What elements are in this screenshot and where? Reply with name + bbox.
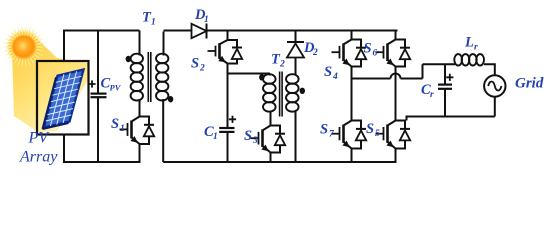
svg-text:PV: PV — [110, 83, 122, 93]
wire: top rail to S4 — [351, 31, 353, 40]
wire: node to T2 primary top — [228, 73, 271, 75]
wire: S1 emitter to bottom rail — [139, 144, 141, 163]
svg-text:S: S — [244, 128, 252, 144]
svg-text:S: S — [366, 121, 374, 137]
transformer T2 secondary winding — [286, 58, 299, 163]
T2 secondary dot — [300, 88, 305, 94]
wire: left top rail — [63, 30, 140, 32]
wire: S3 emitter to bottom rail — [270, 153, 272, 164]
svg-text:3: 3 — [252, 136, 258, 146]
transformer T2 core — [279, 72, 281, 117]
wire: top rail to S2 collector — [227, 31, 229, 41]
T2 primary dot — [259, 74, 264, 80]
diode D2 — [295, 31, 297, 43]
svg-text:S: S — [364, 41, 372, 57]
T1 primary dot — [126, 56, 131, 62]
AC grid source — [484, 75, 505, 96]
wire: right-leg midpoint to bottom output — [407, 117, 495, 121]
svg-text:S: S — [320, 122, 328, 138]
svg-text:S: S — [324, 64, 332, 80]
svg-text:S: S — [111, 116, 119, 132]
PV array box — [37, 61, 89, 135]
transformer T2 primary winding — [263, 74, 276, 126]
svg-text:S: S — [191, 56, 199, 72]
PV solar panel — [43, 70, 84, 130]
wire: secondary bottom rail — [163, 161, 396, 163]
wire: S2 emitter down to node — [227, 64, 229, 74]
transistor S6 (IGBT with antiparallel diode) — [376, 40, 411, 67]
svg-text:2: 2 — [312, 48, 318, 58]
transistor S7 (IGBT with antiparallel diode) — [332, 121, 367, 149]
transistor S4 (IGBT with antiparallel diode) — [332, 40, 367, 67]
sunlight beam — [12, 36, 88, 132]
inductor Lr — [454, 54, 484, 65]
svg-text:L: L — [464, 35, 474, 51]
wire: PV box top to top rail — [63, 31, 65, 62]
diode D1 — [192, 24, 207, 38]
wire: main top rail — [164, 30, 398, 32]
svg-text:1: 1 — [120, 124, 125, 134]
svg-text:r: r — [474, 43, 478, 53]
svg-text:2: 2 — [199, 64, 205, 74]
plus sign C1 — [229, 116, 236, 123]
plus sign Cr — [446, 74, 453, 81]
wire: Lr to grid source — [484, 64, 495, 75]
transistor S1 (IGBT with antiparallel diode) — [120, 117, 155, 145]
wire: S6 emitter down right leg (through crossover) — [395, 67, 397, 121]
transistor S3 (IGBT with antiparallel diode) — [251, 126, 286, 153]
svg-text:1: 1 — [213, 132, 218, 142]
wire: left bottom rail — [63, 161, 140, 163]
svg-text:5: 5 — [375, 129, 380, 139]
svg-text:2: 2 — [279, 60, 285, 70]
capacitor CPV — [97, 31, 99, 94]
wire: S4 emitter to left-leg midpoint — [351, 67, 353, 121]
wire: top rail to S6 — [395, 31, 397, 40]
wire: left-leg midpoint output with crossover hop — [352, 78, 391, 80]
svg-text:Array: Array — [19, 149, 58, 166]
svg-text:1: 1 — [204, 15, 209, 25]
sun — [3, 26, 46, 69]
wire: top output to Cr and Lr — [423, 63, 456, 65]
transformer T1 secondary winding — [156, 32, 168, 163]
wire: grid source bottom lead — [494, 97, 496, 117]
svg-text:Grid: Grid — [515, 76, 544, 92]
transistor S2 (IGBT with antiparallel diode) — [208, 40, 243, 64]
svg-text:1: 1 — [151, 18, 156, 28]
plus sign CPV — [88, 80, 95, 87]
capacitor C1 — [227, 74, 229, 129]
wire: output up to filter level — [422, 64, 424, 78]
svg-text:6: 6 — [373, 49, 378, 59]
svg-text:r: r — [430, 90, 434, 100]
transistor S5 (IGBT with antiparallel diode) — [376, 121, 411, 149]
wire: PV box bottom to bottom rail — [63, 135, 65, 163]
wire: S7 emitter to bottom rail — [351, 149, 353, 164]
transformer T1 primary winding — [131, 31, 143, 117]
T1 secondary dot — [168, 96, 173, 102]
svg-text:PV: PV — [28, 130, 51, 147]
wire: S5 emitter to bottom rail — [395, 149, 397, 164]
svg-text:4: 4 — [332, 72, 338, 82]
capacitor Cr — [444, 64, 446, 84]
transformer T1 core — [147, 52, 149, 102]
